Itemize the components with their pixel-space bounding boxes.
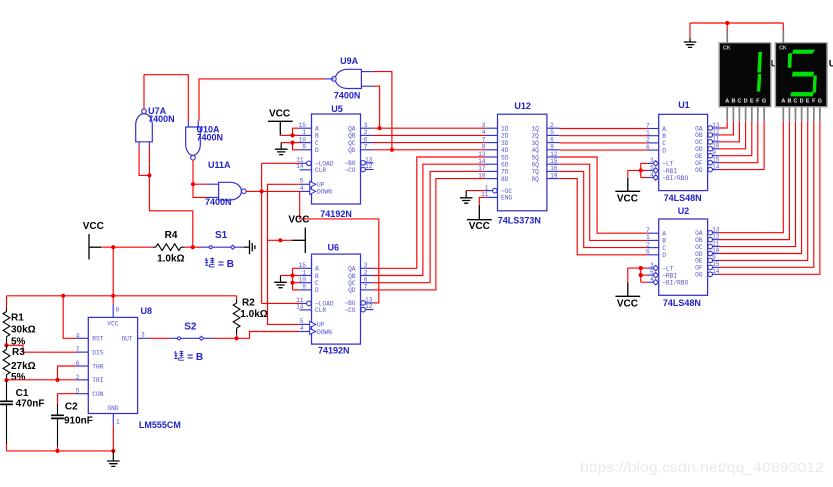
svg-text:VCC: VCC — [288, 214, 309, 225]
svg-text:3: 3 — [364, 262, 368, 269]
svg-text:15: 15 — [299, 122, 307, 129]
svg-text:14: 14 — [712, 163, 720, 170]
svg-text:5: 5 — [300, 318, 304, 325]
svg-text:3: 3 — [650, 157, 654, 164]
svg-text:C: C — [662, 140, 666, 147]
svg-text:U11A: U11A — [208, 160, 231, 170]
svg-text:6: 6 — [550, 136, 554, 143]
svg-text:VCC: VCC — [269, 108, 290, 119]
svg-text:A: A — [725, 98, 729, 104]
svg-text:CK: CK — [723, 46, 731, 52]
svg-text:7400N: 7400N — [148, 114, 175, 124]
svg-text:A: A — [315, 266, 319, 273]
svg-text:3Q: 3Q — [531, 140, 539, 147]
svg-text:R4: R4 — [165, 230, 178, 241]
svg-text:30kΩ: 30kΩ — [11, 325, 36, 336]
svg-text:G: G — [818, 98, 822, 104]
svg-text:A: A — [662, 126, 666, 133]
svg-text:5: 5 — [300, 178, 304, 185]
svg-text:74LS373N: 74LS373N — [498, 216, 541, 226]
svg-text:C: C — [662, 245, 666, 252]
svg-text:~RBI: ~RBI — [662, 168, 677, 175]
svg-text:4: 4 — [76, 332, 80, 339]
svg-text:C: C — [794, 98, 798, 104]
svg-text:1D: 1D — [501, 126, 509, 133]
svg-text:U1: U1 — [678, 100, 690, 110]
svg-text:OG: OG — [695, 272, 703, 279]
svg-text:C: C — [737, 98, 741, 104]
svg-text:4: 4 — [650, 276, 654, 283]
svg-text:2: 2 — [364, 269, 368, 276]
svg-text:14: 14 — [712, 268, 720, 275]
svg-text:OG: OG — [695, 167, 703, 174]
svg-text:A: A — [781, 98, 785, 104]
svg-text:7Q: 7Q — [531, 169, 539, 176]
svg-text:14: 14 — [296, 163, 304, 170]
svg-text:A: A — [315, 126, 319, 133]
svg-text:3: 3 — [650, 262, 654, 269]
svg-text:7400N: 7400N — [197, 133, 224, 143]
svg-text:VCC: VCC — [107, 320, 118, 327]
svg-text:7: 7 — [364, 144, 368, 151]
svg-text:= B: = B — [218, 259, 234, 270]
svg-text:6: 6 — [76, 360, 80, 367]
svg-text:1: 1 — [302, 129, 306, 136]
svg-text:1.0kΩ: 1.0kΩ — [157, 253, 184, 264]
svg-text:10: 10 — [299, 277, 307, 284]
svg-text:6D: 6D — [501, 162, 509, 169]
svg-text:4: 4 — [300, 325, 304, 332]
svg-text:27kΩ: 27kΩ — [11, 361, 36, 372]
svg-text:CK: CK — [779, 46, 787, 52]
svg-text:7D: 7D — [501, 169, 509, 176]
svg-text:~BI/RBO: ~BI/RBO — [662, 280, 688, 287]
svg-text:S2: S2 — [184, 321, 197, 332]
svg-text:7400N: 7400N — [205, 197, 232, 207]
svg-text:5Q: 5Q — [531, 154, 539, 161]
svg-text:12: 12 — [365, 163, 373, 170]
svg-text:VCC: VCC — [469, 221, 490, 232]
svg-text:B: B — [662, 238, 666, 245]
svg-text:12: 12 — [365, 303, 373, 310]
svg-text:5: 5 — [550, 129, 554, 136]
svg-text:4: 4 — [650, 171, 654, 178]
svg-text:C2: C2 — [65, 401, 78, 412]
svg-text:QA: QA — [348, 126, 356, 133]
svg-text:3: 3 — [141, 331, 145, 338]
svg-text:910nF: 910nF — [64, 415, 93, 426]
svg-text:74192N: 74192N — [320, 209, 352, 219]
svg-text:ENG: ENG — [501, 195, 512, 202]
svg-text:GND: GND — [107, 405, 118, 412]
svg-text:UP: UP — [317, 182, 325, 189]
svg-text:2Q: 2Q — [531, 133, 539, 140]
svg-text:8D: 8D — [501, 176, 509, 183]
svg-text:4D: 4D — [501, 147, 509, 154]
svg-text:6: 6 — [364, 277, 368, 284]
svg-text:9: 9 — [550, 144, 554, 151]
svg-text:QC: QC — [348, 140, 356, 147]
svg-text:OUT: OUT — [121, 336, 132, 343]
svg-text:7400N: 7400N — [334, 91, 361, 101]
svg-text:CLR: CLR — [315, 167, 326, 174]
svg-text:~BI/RBO: ~BI/RBO — [662, 175, 688, 182]
svg-text:16: 16 — [550, 165, 558, 172]
svg-text:D: D — [744, 98, 748, 104]
svg-text:QA: QA — [348, 266, 356, 273]
svg-text:VCC: VCC — [83, 221, 104, 232]
svg-text:~RBI: ~RBI — [662, 272, 677, 279]
svg-text:74LS48N: 74LS48N — [663, 298, 701, 308]
svg-text:U12: U12 — [514, 101, 531, 111]
svg-text:DOWN: DOWN — [317, 189, 332, 196]
svg-text:D: D — [662, 147, 666, 154]
svg-text:VCC: VCC — [617, 298, 638, 309]
svg-text:1.0kΩ: 1.0kΩ — [240, 309, 267, 320]
svg-text:C1: C1 — [16, 388, 29, 399]
svg-text:1Q: 1Q — [531, 126, 539, 133]
svg-text:CON: CON — [92, 391, 103, 398]
svg-text:VCC: VCC — [617, 193, 638, 204]
svg-text:RST: RST — [92, 336, 103, 343]
svg-text:THR: THR — [92, 363, 103, 370]
svg-text:QD: QD — [348, 147, 356, 154]
svg-text:5: 5 — [650, 164, 654, 171]
svg-text:15: 15 — [299, 262, 307, 269]
svg-text:~CO: ~CO — [344, 307, 355, 314]
svg-text:9: 9 — [302, 144, 306, 151]
svg-text:UP: UP — [317, 322, 325, 329]
svg-text:R1: R1 — [11, 313, 24, 324]
svg-text:C: C — [315, 140, 319, 147]
svg-text:10: 10 — [299, 136, 307, 143]
svg-text:8: 8 — [116, 307, 120, 314]
svg-text:6: 6 — [364, 136, 368, 143]
svg-text:12: 12 — [550, 151, 558, 158]
svg-text:QD: QD — [348, 287, 356, 294]
svg-text:D: D — [800, 98, 804, 104]
svg-text:TRI: TRI — [92, 377, 103, 384]
svg-text:4: 4 — [300, 185, 304, 192]
svg-text:5D: 5D — [501, 154, 509, 161]
svg-text:2: 2 — [364, 129, 368, 136]
svg-text:6Q: 6Q — [531, 162, 539, 169]
svg-text:19: 19 — [550, 172, 558, 179]
svg-text:15: 15 — [550, 158, 558, 165]
svg-text:U8: U8 — [141, 306, 153, 316]
svg-text:LM555CM: LM555CM — [139, 420, 181, 430]
svg-text:~LT: ~LT — [662, 265, 673, 272]
svg-text:E: E — [750, 98, 754, 104]
svg-text:QC: QC — [348, 280, 356, 287]
svg-text:QB: QB — [348, 133, 356, 140]
svg-text:5: 5 — [650, 269, 654, 276]
svg-text:8Q: 8Q — [531, 176, 539, 183]
svg-text:5: 5 — [76, 388, 80, 395]
svg-text:U2: U2 — [678, 206, 690, 216]
svg-text:3: 3 — [364, 122, 368, 129]
svg-text:DIS: DIS — [92, 349, 103, 356]
svg-text:D: D — [662, 252, 666, 259]
svg-text:DOWN: DOWN — [317, 329, 332, 336]
svg-text:D: D — [315, 287, 319, 294]
svg-text:470nF: 470nF — [16, 399, 45, 410]
svg-text:7: 7 — [364, 284, 368, 291]
svg-text:5%: 5% — [11, 372, 26, 383]
svg-text:A: A — [662, 231, 666, 238]
svg-text:QB: QB — [348, 273, 356, 280]
svg-text:1: 1 — [116, 419, 120, 426]
svg-text:R3: R3 — [12, 347, 25, 358]
svg-text:14: 14 — [296, 303, 304, 310]
svg-text:4Q: 4Q — [531, 147, 539, 154]
svg-text:B: B — [787, 98, 791, 104]
svg-text:2D: 2D — [501, 133, 509, 140]
svg-text:9: 9 — [302, 284, 306, 291]
svg-text:7: 7 — [76, 346, 80, 353]
svg-text:E: E — [806, 98, 810, 104]
svg-text:= B: = B — [187, 352, 203, 363]
svg-text:S1: S1 — [215, 230, 228, 241]
svg-text:3D: 3D — [501, 140, 509, 147]
svg-text:2: 2 — [550, 122, 554, 129]
svg-text:B: B — [731, 98, 735, 104]
svg-text:~LT: ~LT — [662, 161, 673, 168]
svg-text:1: 1 — [302, 269, 306, 276]
svg-text:74LS48N: 74LS48N — [664, 193, 702, 203]
svg-text:74192N: 74192N — [318, 346, 350, 356]
svg-text:R2: R2 — [242, 297, 255, 308]
svg-text:U6: U6 — [328, 243, 340, 253]
svg-text:~CO: ~CO — [344, 167, 355, 174]
svg-text:B: B — [662, 133, 666, 140]
svg-text:G: G — [762, 98, 766, 104]
svg-text:B: B — [315, 133, 319, 140]
svg-text:C: C — [315, 280, 319, 287]
svg-text:CLR: CLR — [315, 307, 326, 314]
svg-text:U: U — [829, 58, 833, 69]
svg-text:https://blog.csdn.net/qq_40893: https://blog.csdn.net/qq_40893012 — [580, 459, 824, 475]
svg-text:U5: U5 — [331, 104, 343, 114]
svg-text:B: B — [315, 273, 319, 280]
svg-text:2: 2 — [76, 374, 80, 381]
svg-text:U9A: U9A — [340, 56, 359, 66]
svg-text:D: D — [315, 147, 319, 154]
